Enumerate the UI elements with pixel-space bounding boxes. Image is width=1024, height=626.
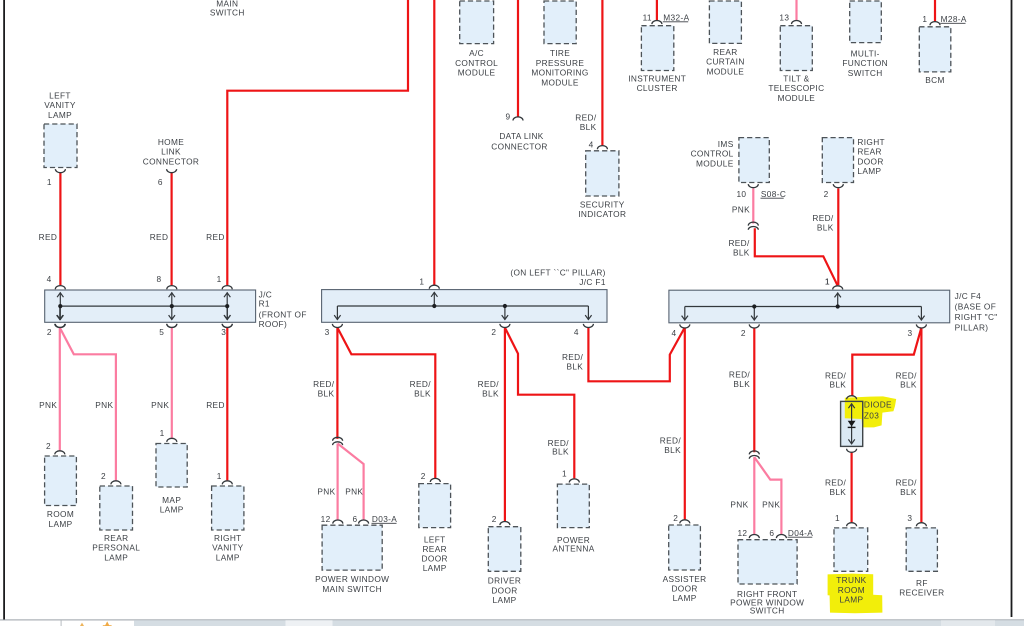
svg-text:BLK: BLK xyxy=(318,389,335,399)
svg-text:DOOR: DOOR xyxy=(857,156,883,166)
svg-text:R1: R1 xyxy=(259,298,270,308)
svg-text:TIRE: TIRE xyxy=(550,48,570,58)
svg-text:MODULE: MODULE xyxy=(541,77,579,87)
svg-text:LEFT: LEFT xyxy=(424,535,446,545)
svg-text:ANTENNA: ANTENNA xyxy=(553,544,595,554)
svg-text:MODULE: MODULE xyxy=(707,66,745,76)
svg-text:MODULE: MODULE xyxy=(458,68,496,78)
svg-text:REAR: REAR xyxy=(422,544,446,554)
svg-text:RIGHT: RIGHT xyxy=(214,533,242,543)
svg-text:2: 2 xyxy=(824,189,829,199)
svg-text:10: 10 xyxy=(736,189,746,199)
svg-text:IMS: IMS xyxy=(718,139,734,149)
svg-text:S08-C: S08-C xyxy=(761,189,786,199)
svg-text:PNK: PNK xyxy=(95,400,113,410)
svg-text:REAR: REAR xyxy=(713,47,737,57)
svg-text:1: 1 xyxy=(419,276,424,286)
svg-text:A/C: A/C xyxy=(469,48,484,58)
svg-text:MONITORING: MONITORING xyxy=(531,68,588,78)
svg-text:2: 2 xyxy=(101,471,106,481)
svg-text:4: 4 xyxy=(672,328,677,338)
svg-text:PNK: PNK xyxy=(39,400,57,410)
svg-text:BLK: BLK xyxy=(664,445,681,455)
svg-text:1: 1 xyxy=(825,276,830,286)
svg-text:3: 3 xyxy=(908,328,913,338)
svg-text:BLK: BLK xyxy=(829,380,846,390)
svg-text:LAMP: LAMP xyxy=(104,552,128,562)
svg-text:12: 12 xyxy=(737,528,747,538)
svg-text:M28-A: M28-A xyxy=(941,14,967,24)
svg-text:TRUNK: TRUNK xyxy=(836,575,866,585)
svg-text:CONTROL: CONTROL xyxy=(691,149,734,159)
svg-text:RED/: RED/ xyxy=(478,379,500,389)
svg-text:RED: RED xyxy=(206,400,225,410)
svg-text:PNK: PNK xyxy=(317,486,335,496)
svg-text:RED/: RED/ xyxy=(728,238,750,248)
svg-text:FUNCTION: FUNCTION xyxy=(842,58,888,68)
svg-text:DOOR: DOOR xyxy=(422,554,448,564)
svg-text:5: 5 xyxy=(159,327,164,337)
svg-text:POWER WINDOW: POWER WINDOW xyxy=(315,574,389,584)
svg-text:RIGHT "C": RIGHT "C" xyxy=(955,312,998,322)
svg-text:1: 1 xyxy=(835,513,840,523)
svg-text:LAMP: LAMP xyxy=(48,110,72,120)
svg-text:RED/: RED/ xyxy=(729,370,751,380)
svg-text:BLK: BLK xyxy=(580,122,597,132)
svg-text:LEFT: LEFT xyxy=(49,90,71,100)
svg-text:11: 11 xyxy=(643,12,652,22)
svg-text:INDICATOR: INDICATOR xyxy=(578,209,626,219)
svg-text:RIGHT: RIGHT xyxy=(857,137,885,147)
svg-text:2: 2 xyxy=(46,441,51,451)
svg-text:RED: RED xyxy=(206,232,225,242)
svg-text:BLK: BLK xyxy=(482,389,499,399)
svg-text:4: 4 xyxy=(589,140,594,150)
svg-text:BLK: BLK xyxy=(566,362,583,372)
svg-text:ROOF): ROOF) xyxy=(259,319,287,329)
svg-text:PNK: PNK xyxy=(151,400,169,410)
svg-text:TELESCOPIC: TELESCOPIC xyxy=(768,83,824,93)
svg-text:6: 6 xyxy=(353,514,358,524)
svg-text:(BASE OF: (BASE OF xyxy=(955,302,997,312)
svg-text:BLK: BLK xyxy=(900,380,917,390)
svg-text:13: 13 xyxy=(779,12,789,22)
svg-text:REAR: REAR xyxy=(857,147,881,157)
svg-text:1: 1 xyxy=(562,468,567,478)
svg-text:RF: RF xyxy=(916,578,928,588)
svg-text:MAP: MAP xyxy=(162,495,181,505)
svg-text:RED/: RED/ xyxy=(575,112,597,122)
svg-text:BLK: BLK xyxy=(817,223,834,233)
svg-text:1: 1 xyxy=(217,274,222,284)
svg-text:LINK: LINK xyxy=(161,147,181,157)
svg-text:BLK: BLK xyxy=(733,379,750,389)
svg-text:LAMP: LAMP xyxy=(49,519,73,529)
svg-text:LAMP: LAMP xyxy=(493,595,517,605)
svg-text:LAMP: LAMP xyxy=(423,563,447,573)
svg-text:CLUSTER: CLUSTER xyxy=(637,83,678,93)
svg-text:BCM: BCM xyxy=(925,75,945,85)
svg-text:1: 1 xyxy=(160,428,165,438)
svg-text:HOME: HOME xyxy=(158,137,184,147)
svg-text:Z03: Z03 xyxy=(864,411,879,421)
svg-text:CURTAIN: CURTAIN xyxy=(706,57,745,67)
svg-text:4: 4 xyxy=(574,327,579,337)
svg-text:PNK: PNK xyxy=(732,204,750,214)
svg-text:CONNECTOR: CONNECTOR xyxy=(143,156,199,166)
svg-text:RED/: RED/ xyxy=(410,379,432,389)
svg-text:4: 4 xyxy=(47,274,52,284)
svg-text:BLK: BLK xyxy=(552,446,569,456)
svg-text:VANITY: VANITY xyxy=(44,100,76,110)
svg-text:SWITCH: SWITCH xyxy=(210,7,245,17)
svg-text:CONNECTOR: CONNECTOR xyxy=(491,141,547,151)
svg-text:DIODE: DIODE xyxy=(864,400,892,410)
svg-text:BLK: BLK xyxy=(733,247,750,257)
svg-text:9: 9 xyxy=(506,111,511,121)
svg-text:SECURITY: SECURITY xyxy=(580,200,625,210)
svg-text:BLK: BLK xyxy=(900,487,917,497)
svg-text:PERSONAL: PERSONAL xyxy=(92,543,140,553)
svg-text:RED/: RED/ xyxy=(313,379,335,389)
svg-text:SWITCH: SWITCH xyxy=(848,68,883,78)
svg-text:RECEIVER: RECEIVER xyxy=(899,588,944,598)
svg-text:2: 2 xyxy=(421,471,426,481)
svg-text:3: 3 xyxy=(907,513,912,523)
svg-text:DATA LINK: DATA LINK xyxy=(499,131,543,141)
svg-text:PRESSURE: PRESSURE xyxy=(536,58,585,68)
svg-text:LAMP: LAMP xyxy=(673,593,697,603)
svg-text:D04-A: D04-A xyxy=(788,528,813,538)
svg-text:MODULE: MODULE xyxy=(696,158,734,168)
svg-text:M32-A: M32-A xyxy=(663,12,689,22)
svg-text:BLK: BLK xyxy=(414,389,431,399)
svg-text:PILLAR): PILLAR) xyxy=(955,322,989,332)
svg-text:6: 6 xyxy=(769,528,774,538)
svg-text:3: 3 xyxy=(221,327,226,337)
svg-text:J/C F1: J/C F1 xyxy=(579,277,606,287)
svg-text:DRIVER: DRIVER xyxy=(488,576,521,586)
svg-text:VANITY: VANITY xyxy=(212,543,244,553)
svg-text:PNK: PNK xyxy=(762,499,780,509)
svg-text:BLK: BLK xyxy=(829,487,846,497)
svg-text:ROOM: ROOM xyxy=(47,509,74,519)
svg-text:MULTI-: MULTI- xyxy=(851,48,880,58)
svg-text:2: 2 xyxy=(491,327,496,337)
svg-text:LAMP: LAMP xyxy=(839,595,863,605)
svg-text:LAMP: LAMP xyxy=(160,505,184,515)
svg-text:2: 2 xyxy=(47,327,52,337)
svg-text:3: 3 xyxy=(325,327,330,337)
svg-text:CONTROL: CONTROL xyxy=(455,58,498,68)
svg-text:1: 1 xyxy=(922,14,927,24)
svg-text:MAIN SWITCH: MAIN SWITCH xyxy=(322,584,382,594)
svg-text:SWITCH: SWITCH xyxy=(750,606,785,616)
svg-text:MODULE: MODULE xyxy=(778,93,816,103)
svg-text:2: 2 xyxy=(741,328,746,338)
svg-text:INSTRUMENT: INSTRUMENT xyxy=(628,74,686,84)
svg-text:2: 2 xyxy=(492,514,497,524)
svg-text:6: 6 xyxy=(158,177,163,187)
svg-text:RED/: RED/ xyxy=(562,352,584,362)
svg-text:1: 1 xyxy=(217,471,222,481)
svg-text:ASSISTER: ASSISTER xyxy=(663,574,707,584)
svg-text:RED: RED xyxy=(39,232,58,242)
svg-text:(FRONT OF: (FRONT OF xyxy=(259,309,307,319)
svg-text:REAR: REAR xyxy=(104,533,128,543)
svg-text:LAMP: LAMP xyxy=(216,552,240,562)
svg-text:DOOR: DOOR xyxy=(491,585,517,595)
svg-text:PNK: PNK xyxy=(345,486,363,496)
svg-text:LAMP: LAMP xyxy=(857,166,881,176)
svg-text:DOOR: DOOR xyxy=(671,583,697,593)
svg-text:RED: RED xyxy=(150,232,169,242)
svg-text:D03-A: D03-A xyxy=(372,514,397,524)
svg-text:2: 2 xyxy=(673,513,678,523)
svg-text:ROOM: ROOM xyxy=(838,585,865,595)
svg-text:PNK: PNK xyxy=(730,499,748,509)
svg-text:TILT &: TILT & xyxy=(783,74,809,84)
svg-text:J/C F4: J/C F4 xyxy=(955,291,982,301)
svg-text:8: 8 xyxy=(157,274,162,284)
svg-text:1: 1 xyxy=(47,177,52,187)
svg-text:RED/: RED/ xyxy=(812,213,834,223)
svg-text:12: 12 xyxy=(321,514,331,524)
